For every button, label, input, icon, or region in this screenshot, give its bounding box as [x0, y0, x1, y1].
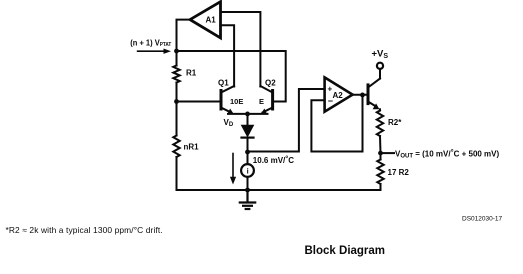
wire emitter node to diode — [247, 114, 249, 125]
wire nR1 to bottom rail — [176, 157, 178, 190]
node emitter junction — [245, 112, 250, 117]
wire node B to nR1 — [176, 102, 178, 136]
svg-text:E: E — [259, 97, 264, 106]
wire R1 to node B — [176, 83, 178, 102]
wire A1 upper input to Q2 collector — [221, 12, 261, 87]
node B junction — [174, 99, 179, 104]
transistor Q1 — [221, 86, 234, 115]
wire VOUT node to 17R2 — [380, 153, 382, 159]
node (n+1)VPTAT junction — [174, 49, 179, 54]
svg-text:Q1: Q1 — [218, 79, 229, 88]
wire current source to ground node — [247, 177, 249, 190]
svg-text:*R2 ≈ 2k with a typical 1300 p: *R2 ≈ 2k with a typical 1300 ppm/°C drif… — [6, 225, 163, 235]
wire node C to A2 + input — [248, 89, 325, 152]
wire A2 minus input feedback loop — [311, 95, 362, 151]
ground — [240, 190, 255, 209]
svg-text:i: i — [247, 167, 249, 176]
svg-text:PTAT: PTAT — [160, 42, 172, 48]
transistor Q3 — [368, 79, 380, 110]
node VOUT junction — [378, 151, 383, 156]
wire Q3 emitter to R2 — [379, 109, 381, 110]
resistor 17R2 — [377, 160, 383, 185]
wire node line to Q2 base — [177, 51, 286, 102]
wire diode to node C — [247, 138, 249, 152]
node C junction — [245, 150, 250, 155]
wire bottom rail — [177, 189, 381, 191]
wire Q3 collector to +VS terminal — [379, 69, 381, 79]
wire 17R2 to bottom rail — [380, 184, 382, 190]
transistor Q2 — [260, 86, 272, 115]
svg-text:R2*: R2* — [388, 118, 402, 127]
resistor R1 — [173, 66, 179, 83]
svg-text:A1: A1 — [206, 16, 217, 25]
svg-text:−: − — [328, 96, 333, 106]
terminal +VS — [377, 63, 383, 69]
wire A1 lower input to Q1 collector — [221, 25, 235, 86]
svg-text:nR1: nR1 — [184, 143, 200, 152]
current source i — [241, 164, 254, 177]
wire node C to current source — [247, 152, 249, 165]
resistor R2* — [377, 111, 383, 137]
svg-text:A2: A2 — [333, 91, 344, 100]
svg-text:+: + — [328, 85, 333, 94]
diode VD — [242, 125, 254, 137]
svg-text:(n + 1) V: (n + 1) V — [130, 38, 160, 47]
svg-text:R1: R1 — [186, 69, 197, 78]
svg-text:DS012030-17: DS012030-17 — [462, 216, 502, 223]
input arrow (n+1)VPTAT — [138, 49, 171, 54]
wire node B to Q1 base — [177, 101, 222, 103]
current direction arrow — [230, 154, 236, 185]
op-amp A2 — [325, 77, 353, 111]
node A2 output junction — [360, 93, 365, 98]
svg-text:17 R2: 17 R2 — [388, 168, 410, 177]
svg-text:10E: 10E — [230, 97, 243, 106]
svg-text:Block Diagram: Block Diagram — [305, 245, 386, 257]
wire common emitter line — [228, 113, 268, 115]
svg-text:10.6 mV/°C: 10.6 mV/°C — [253, 154, 294, 165]
node ground junction — [245, 188, 250, 193]
wire VOUT stub — [381, 152, 395, 154]
resistor nR1 — [173, 136, 179, 158]
wire R2 to VOUT node — [379, 136, 382, 153]
svg-text:Q2: Q2 — [265, 79, 276, 88]
op-amp A1 — [190, 2, 221, 38]
wire left rail node to R1 — [176, 51, 178, 66]
wire A1 output to node (n+1)VPTAT — [177, 20, 191, 51]
wire A2 output to Q3 base — [353, 94, 368, 96]
